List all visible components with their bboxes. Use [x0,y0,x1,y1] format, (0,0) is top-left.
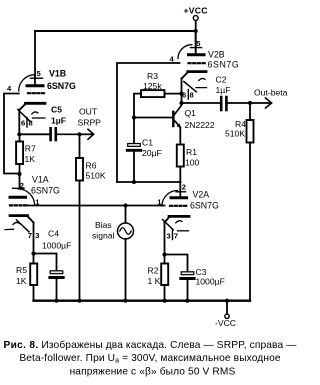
resistor R5 [16,254,37,301]
svg-text:R1: R1 [186,147,197,157]
node V1B cathode / C5 / R7 [17,132,21,136]
heater V1B [18,110,30,122]
node Q1 base / R3 / C1 [132,115,136,119]
svg-text:5: 5 [196,39,201,48]
grid V1B [28,92,44,94]
svg-text:510K: 510K [225,129,245,139]
triode V2B [170,31,240,103]
envelope V1A [18,189,34,205]
source bias signal [92,206,134,301]
svg-text:1µF: 1µF [216,85,231,95]
svg-text:5: 5 [37,69,42,78]
svg-text:R4: R4 [235,119,246,129]
wire out-beta arrow [250,88,288,109]
svg-text:6: 6 [21,119,25,128]
caption [3,339,297,378]
node OUT / R6 [77,132,81,136]
svg-text:100: 100 [185,158,200,168]
node bias tap [123,203,127,207]
svg-text:+VCC: +VCC [184,6,208,16]
node C4 / rail [54,299,58,303]
svg-text:2: 2 [182,183,186,192]
wire grid bus (V1A grid to V2A grid) [27,205,165,207]
wire V2B plate lead pin 5 [195,31,197,53]
transistor Q1 [173,104,215,131]
svg-text:1K: 1K [16,276,27,286]
wire V1B grid lead pin 4 [4,94,20,174]
svg-text:8: 8 [29,119,33,128]
wire V1A cathode lead [33,222,35,253]
svg-text:R2: R2 [148,266,159,276]
cathode V2B [188,70,206,73]
svg-text:Bias: Bias [95,220,112,230]
wire V2A cathode lead [164,222,166,254]
node C1 / plate node [132,180,136,184]
svg-text:1K: 1K [25,154,36,164]
wire bottom rail [34,300,251,302]
svg-text:6SN7G: 6SN7G [190,201,219,211]
cathode V1B [26,102,46,105]
plate V2B [189,53,205,56]
svg-text:1000µF: 1000µF [42,241,71,251]
svg-text:3: 3 [35,231,39,240]
svg-text:7: 7 [174,232,178,241]
svg-text:6SN7G: 6SN7G [31,186,60,196]
grid V2A [170,205,188,207]
capacitor C3 [165,255,225,301]
envelope V2A [162,191,178,207]
svg-text:C3: C3 [196,267,207,277]
svg-text:R3: R3 [147,71,158,81]
node R7 / V1B grid / V1A plate [17,172,21,176]
resistor R2 [148,255,169,301]
svg-text:4: 4 [7,84,12,93]
svg-text:1µF: 1µF [51,116,66,126]
plate V2A [171,196,187,199]
resistor R3 [134,71,182,118]
wire V2A plate lead pin 2 [179,182,181,196]
svg-text:7: 7 [28,231,32,240]
capacitor C4 [34,229,72,301]
svg-text:R6: R6 [86,161,97,171]
triode V2A [157,182,219,255]
capacitor C1 [127,118,161,183]
svg-text:OUT: OUT [79,107,98,117]
svg-text:Рис. 8. Изображены два каскада: Рис. 8. Изображены два каскада. Слева — … [3,339,297,351]
-VCC terminal [215,301,236,328]
heater V1A [17,220,30,232]
node V2A cathode / R2 / C3 [162,252,166,256]
svg-text:V1A: V1A [32,175,49,185]
grid V1A [10,204,27,206]
svg-text:R7: R7 [25,144,36,154]
node V1A cathode / R5 / C4 [31,251,35,255]
svg-text:6SN7G: 6SN7G [208,60,240,70]
svg-text:C4: C4 [48,229,59,239]
svg-text:R5: R5 [16,265,27,275]
resistor R6 [76,136,106,301]
triode V1A [5,175,60,254]
svg-text:6SN7G: 6SN7G [47,81,76,91]
triode V1B [4,31,76,174]
node R2 / rail [162,299,166,303]
wire V2B cathode lead [181,78,183,103]
svg-text:1 K: 1 K [148,276,161,286]
svg-text:V1B: V1B [49,69,66,79]
wire OUT SRPP arrow [78,107,102,140]
svg-text:SRPP: SRPP [78,118,102,128]
cathode V2A [169,215,189,218]
plate V1B [27,84,43,87]
svg-text:C1: C1 [142,138,153,148]
wire V1B plate lead pin 5 [34,31,36,84]
plate V1A [10,196,26,199]
svg-text:C5: C5 [51,105,62,115]
svg-text:1000µF: 1000µF [196,277,225,287]
envelope V1B [19,75,35,91]
node -VCC / rail [225,299,229,303]
wire V2B grid feed [117,63,180,182]
svg-text:-VCC: -VCC [215,318,236,328]
resistor R4 [225,103,254,301]
capacitor C2 [216,75,251,111]
svg-text:8: 8 [190,91,194,100]
svg-text:Out-beta: Out-beta [254,88,288,98]
+VCC terminal [184,6,208,51]
wire V1B cathode lead [18,110,20,135]
node C3 / rail [185,299,189,303]
svg-text:2N2222: 2N2222 [185,120,215,130]
node Q1 collector / out [179,101,183,105]
wire OUT SRPP [19,133,49,135]
svg-text:Beta-follower. При Uа = 300V,: Beta-follower. При Uа = 300V, максимальн… [19,353,281,365]
svg-text:напряжение с «β» было 50 V RMS: напряжение с «β» было 50 V RMS [70,366,236,378]
svg-text:V2B: V2B [208,50,225,60]
heater V2B [184,82,197,92]
node bias / rail [123,299,127,303]
node top rail junction [194,29,198,33]
envelope V2B [178,45,192,59]
svg-text:signal: signal [92,231,115,241]
svg-text:C2: C2 [216,75,227,85]
cathode V1A [10,214,28,217]
node R6 / rail [77,299,81,303]
node out-beta / R4 [248,101,252,105]
wire +VCC top rail [35,30,196,32]
svg-text:125k: 125k [143,81,162,91]
wire out-beta [182,102,220,104]
resistor R7 [16,134,36,187]
grid V2B [189,62,206,64]
svg-text:Q1: Q1 [185,108,197,118]
svg-text:6: 6 [182,91,186,100]
heater V2A [163,220,174,230]
wire V2A plate node [117,181,180,183]
svg-text:V2A: V2A [193,190,210,200]
node V2B cathode / R3 [179,92,183,96]
wire Q1 base [134,117,172,119]
resistor R1 [177,128,200,182]
svg-text:20µF: 20µF [142,148,162,158]
svg-text:510K: 510K [86,171,106,181]
capacitor C5 [51,105,80,141]
svg-text:3: 3 [167,232,171,241]
